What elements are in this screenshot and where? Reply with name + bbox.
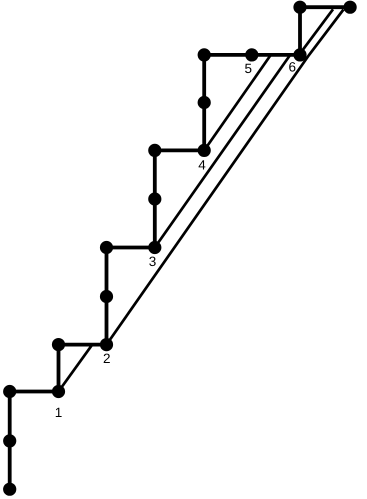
node 1: [52, 385, 65, 398]
chord node 6 to node 7: [299, 9, 333, 55]
node 3: [148, 241, 161, 254]
dot (2,4): [100, 290, 113, 303]
dot (0,1): [3, 434, 16, 447]
dot (4,8): [198, 96, 211, 109]
node 4: [198, 144, 211, 157]
node 7: [344, 1, 357, 14]
svg-text:5: 5: [245, 61, 253, 76]
node 2: [100, 338, 113, 351]
dot (6,10): [293, 1, 306, 14]
svg-text:1: 1: [55, 405, 63, 420]
ray from node 2: [107, 10, 344, 345]
dot (1,3): [52, 338, 65, 351]
dot (0,0): [3, 483, 16, 496]
dot (3,7): [148, 144, 161, 157]
dot (0,2): [3, 385, 16, 398]
dot (3,6): [148, 192, 161, 205]
node 6: [293, 48, 306, 61]
ray from node 4: [204, 55, 271, 150]
svg-text:6: 6: [289, 60, 297, 75]
svg-text:3: 3: [149, 254, 157, 269]
dot (4,9): [198, 48, 211, 61]
node 5: [245, 48, 258, 61]
ray from node 3: [155, 55, 290, 248]
svg-text:2: 2: [103, 351, 111, 366]
dot (2,5): [100, 241, 113, 254]
svg-text:4: 4: [198, 158, 206, 173]
ray from node 1: [59, 345, 93, 392]
